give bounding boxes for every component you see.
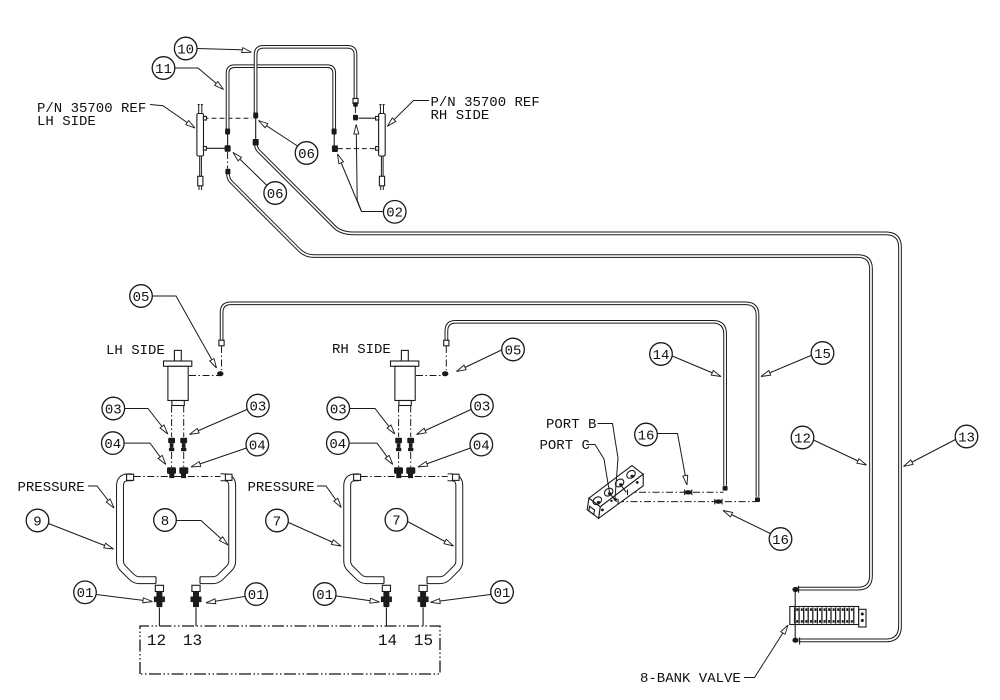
dash-dot line tube11 left leg lower [227,152,229,169]
svg-text:04: 04 [249,438,266,454]
cap fitting RH U-tube 7 left top [354,474,361,480]
fitting on tube 11 left leg [225,129,230,135]
dash-dot line tube10 right leg lower [354,106,356,114]
leader PORT C [586,445,610,493]
leader balloon 06 lower [233,153,267,186]
svg-text:15: 15 [814,347,831,363]
8-bank valve block [790,607,866,628]
cap fitting hose 15 bottom end [755,497,760,502]
fitting at valve top (hose 12) [792,587,798,592]
svg-text:01: 01 [77,586,94,602]
dash-dot port line LH cylinder right [183,406,185,438]
leader balloon 03 LH-left [125,409,168,435]
balloon 06 lower [264,182,287,205]
svg-text:14: 14 [378,632,397,650]
balloon 14 [650,343,673,366]
dash-dot port line LH cylinder left [171,406,173,438]
svg-text:03: 03 [330,402,347,418]
svg-text:02: 02 [386,206,403,222]
port 15 stub line [422,608,424,627]
balloon 03 RH-right [471,394,494,417]
balloon 16 lower [769,528,792,551]
dash-dot center line LH cylinder to hose 15 fitting [189,375,219,377]
balloon 03 LH-right [247,394,270,417]
cap fitting LH U-tube 9 top [127,474,134,480]
svg-text:RH SIDE: RH SIDE [431,108,490,124]
hose 12 (long run from LH tube-11 elbow to 8-bank valve) [228,173,871,589]
leader P/N label LH [150,105,195,129]
balloon 04 LH-left [102,432,125,455]
svg-text:03: 03 [473,399,490,415]
balloon 03 LH-left [102,397,125,420]
elbow fitting 04 RH cylinder right [406,467,415,478]
dashed port line RH manifold bottom [338,148,377,150]
PORT B / PORT C manifold block [587,466,643,519]
cap fitting tube 10 right leg [353,99,358,104]
leader balloon 16 lower [723,511,770,534]
svg-text:01: 01 [494,586,511,602]
fitting 03 RH cylinder left [395,438,402,451]
port 12 stub line [158,608,160,627]
balloon 05 LH [130,285,153,308]
dash-dot port line RH cylinder left [398,406,400,438]
leader balloon 04 RH-right [418,448,471,467]
hose 13 (long run from LH tube-10 elbow to 8-bank valve) [256,143,900,641]
dash-dot line hose14 end to RH cylinder fitting [445,346,447,370]
fitting 05 at RH cylinder [442,371,448,376]
dash-dot trace port C to hose 15 [617,501,757,503]
cap fitting above 01 tee port 13 [192,585,200,591]
fitting 03 LH cylinder left [168,438,175,451]
cap fitting above 01 tee port 12 [155,585,163,591]
pressure tube 9 (LH pair outer U-tube left) [120,477,156,580]
leader balloon 11 [175,68,224,90]
svg-text:13: 13 [958,430,975,446]
svg-text:8-BANK VALVE: 8-BANK VALVE [640,671,741,687]
leader balloon 01 port13 [206,597,245,603]
svg-text:15: 15 [414,632,433,650]
svg-text:RH SIDE: RH SIDE [332,342,391,358]
leader balloon 7 right [408,522,454,547]
svg-text:10: 10 [177,42,194,58]
tube 11 (inner n-shaped tube) [228,66,335,130]
balloon 05 RH [502,338,525,361]
svg-text:05: 05 [505,343,522,359]
balloon 01 port14 [313,583,336,606]
balloon 04 RH-left [327,432,350,455]
tube end ticks at pressure tube bottoms [156,577,427,584]
fitting 02 tube 10 right leg [353,115,358,121]
svg-text:01: 01 [248,588,265,604]
fitting 03 RH cylinder right [407,438,414,451]
svg-text:03: 03 [105,402,122,418]
svg-text:04: 04 [473,438,490,454]
svg-text:13: 13 [183,632,202,650]
elbow fitting 04 LH cylinder right [179,467,188,478]
leader balloon 03 RH-left [350,409,395,435]
balloon 15 [811,342,834,365]
fitting at valve bottom (hose 13) [792,638,798,643]
balloon 9 [26,509,49,532]
solid port line RH manifold top [359,117,377,119]
elbow fitting 04 LH cylinder left [167,467,176,478]
tee fitting 02 tube 11 right leg [332,145,338,152]
leader balloon 06 upper [259,121,298,147]
svg-text:01: 01 [316,588,333,604]
fitting 06 on tube 10 left leg [253,113,258,119]
svg-text:PRESSURE: PRESSURE [248,480,315,496]
LH cylinder body [164,350,192,405]
cap fitting hose14 lower end at RH cylinder [444,340,449,346]
svg-text:16: 16 [772,533,789,549]
leader balloon 8 [177,521,229,546]
cap fitting hose 14 bottom end [723,486,728,491]
balloon 11 [152,57,175,80]
balloon 01 port13 [245,583,268,606]
leader PRESSURE LH [88,486,114,508]
dash-dot trace port B to hose 14 [626,491,724,493]
balloon 12 [791,426,814,449]
dash-dot manifold line RH pair [361,476,453,478]
dash-dot center line RH cylinder to hose 14 fitting [416,375,444,377]
fitting 16 on port C trace [715,499,722,505]
fitting on tube 11 right leg [332,129,337,135]
leader balloon 16 upper [657,434,687,486]
pressure tube 8 (LH pair inner U-tube right) [200,477,232,580]
balloon 01 port12 [74,581,97,604]
cap fitting above 01 tee port 15 [419,585,427,591]
dash-dot manifold line LH pair [134,476,226,478]
tee fitting 01 port 15 [418,592,429,608]
svg-text:12: 12 [147,632,166,650]
svg-text:LH SIDE: LH SIDE [37,114,96,130]
port 14 stub line [385,608,387,627]
elbow fitting 04 RH cylinder left [394,467,403,478]
dashed port line LH manifold top [204,117,253,119]
fitting 03 LH cylinder right [180,438,187,451]
svg-text:9: 9 [33,514,41,530]
tee fitting tube 10 left leg [253,139,259,146]
leader balloon 01 port14 [337,596,380,602]
cap fitting hose15 lower end at LH cylinder [219,340,224,346]
port 13 stub line [195,608,197,627]
leader P/N label RH [387,101,429,127]
valve bank dashed outline box [140,626,440,674]
hose 15 (LH cylinder to right side vertical) [222,303,758,497]
balloon 16 upper [635,423,658,446]
balloon 8 [154,509,177,532]
RH manifold bar P/N 35700 [376,105,386,190]
svg-text:06: 06 [267,187,284,203]
fitting 16 on port B trace [685,490,692,496]
leader balloon 13 [904,440,956,467]
pressure tube 7 (RH pair left U-tube) [347,477,384,580]
leader PORT B [598,424,619,499]
leader balloon 03 LH-right [190,410,248,435]
leader balloon 04 RH-left [349,443,393,464]
svg-text:8: 8 [161,514,169,530]
solid trace from port B hole [621,485,628,495]
cap fitting RH U-tube 7 right top [453,474,460,480]
tee fitting 01 port 13 [191,592,202,608]
leader balloon 05 RH [457,350,502,372]
svg-text:16: 16 [638,428,655,444]
tee fitting 01 port 14 [381,592,392,608]
leader balloon 03 RH-right [417,410,472,435]
RH cylinder body [391,350,419,405]
svg-text:11: 11 [155,62,172,78]
svg-text:12: 12 [794,431,811,447]
leader balloon 12 [814,440,867,465]
balloon 04 LH-right [246,433,269,456]
leader balloon 01 port12 [96,595,152,602]
leader balloon 02 branch to tube10 leg [356,125,383,212]
tube 10 (outer n-shaped tube) [256,47,356,114]
svg-text:7: 7 [273,514,281,530]
solid trace from port C hole [610,494,618,505]
svg-text:LH SIDE: LH SIDE [106,343,165,359]
LH manifold bar P/N 35700 [197,105,207,190]
leader balloon 9 [49,524,114,550]
leader balloon 02 branch to tube11 tee [338,154,362,212]
leader balloon 7 left [289,523,342,547]
balloon 10 [174,37,197,60]
cap fitting above 01 tee port 14 [382,585,390,591]
hose 14 (RH cylinder to right side vertical) [446,322,725,486]
svg-text:03: 03 [249,399,266,415]
cap fitting LH U-tube 8 top [225,474,232,480]
leader balloon 14 [672,356,721,377]
tee fitting 01 port 12 [154,592,165,608]
balloon 01 port15 [491,581,514,604]
balloon 06 upper [295,142,318,165]
leader balloon 04 LH-right [191,448,247,467]
svg-text:PORT C: PORT C [540,438,590,454]
leader 8-BANK VALVE [744,625,788,678]
svg-text:04: 04 [104,437,121,453]
balloon 7 right [385,509,408,532]
svg-text:7: 7 [392,514,400,530]
leader balloon 05 LH [153,296,217,368]
leader balloon 04 LH-left [124,443,166,464]
fitting 05 at LH cylinder [217,371,223,376]
lower fitting tube 11 left leg [225,169,230,175]
valve inlet connector line [794,591,796,640]
balloon 13 [955,425,978,448]
svg-text:PORT B: PORT B [546,417,596,433]
pressure tube 7 (RH pair right U-tube) [427,477,459,580]
svg-text:05: 05 [133,290,150,306]
balloon 7 left [266,509,289,532]
balloon 04 RH-right [470,433,493,456]
leader balloon 01 port15 [431,595,491,603]
solid port line LH manifold bottom [204,147,226,149]
svg-text:06: 06 [298,147,315,163]
tee fitting 06 tube 11 left leg [225,145,231,152]
dash-dot port line RH cylinder right [410,406,412,438]
balloon 02 [383,201,406,224]
leader balloon 15 [761,356,811,377]
dash-dot line hose15 end to LH cylinder fitting [221,346,223,370]
leader balloon 10 [197,49,252,53]
svg-text:04: 04 [329,437,346,453]
balloon 03 RH-left [327,397,350,420]
svg-text:14: 14 [653,348,670,364]
leader PRESSURE RH [317,486,341,508]
svg-text:PRESSURE: PRESSURE [18,480,85,496]
